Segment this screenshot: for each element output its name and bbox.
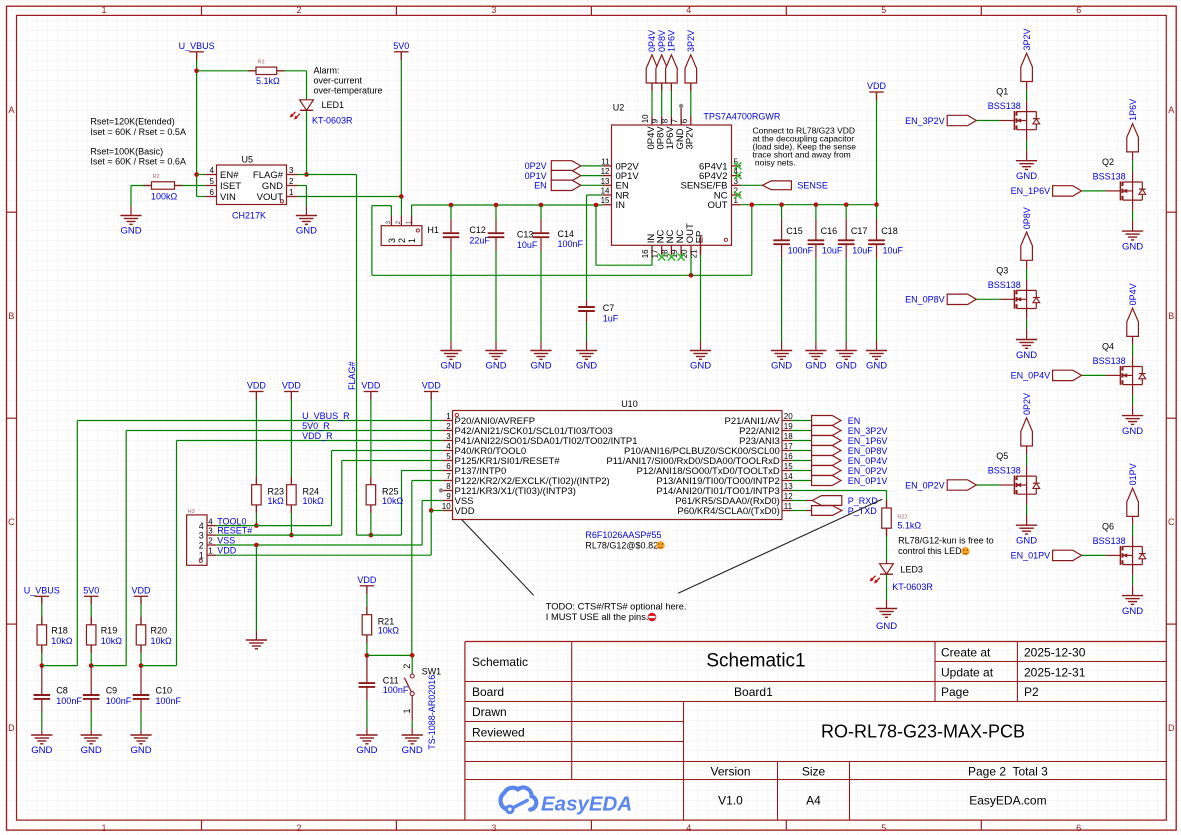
svg-text:0P2V: 0P2V [525, 161, 547, 171]
port EN from U10 [792, 416, 861, 426]
node C15 junction [779, 202, 784, 207]
svg-text:3: 3 [491, 5, 496, 15]
svg-text:EN_1P6V: EN_1P6V [848, 436, 888, 446]
transistor Q6 BSS138 [1011, 463, 1146, 617]
svg-text:EN_3P2V: EN_3P2V [848, 426, 888, 436]
wire 3P2V flag to pin [690, 83, 692, 116]
svg-text:control this LED: control this LED [898, 546, 962, 556]
svg-text:EP: EP [694, 231, 705, 244]
svg-text:1: 1 [101, 823, 106, 833]
svg-text:GND: GND [866, 361, 887, 372]
svg-text:16: 16 [784, 452, 793, 461]
capacitor C12 22uF [443, 205, 491, 351]
svg-text:LED1: LED1 [322, 100, 345, 110]
ground under C15 [771, 351, 792, 372]
svg-text:7: 7 [670, 118, 679, 123]
ground under LED3 [876, 609, 897, 633]
svg-text:H1: H1 [427, 225, 439, 235]
power port VDD above R21 [357, 575, 377, 586]
svg-text:22uF: 22uF [469, 235, 490, 245]
svg-text:GND: GND [130, 745, 151, 756]
resistor R23 1kΩ [252, 485, 284, 506]
svg-text:14: 14 [601, 187, 610, 196]
wire NR to C7 [587, 195, 603, 300]
title block table [465, 642, 1166, 821]
power flag 1P6V above U2 [666, 30, 678, 83]
svg-text:R23: R23 [268, 486, 285, 496]
ground under VSS [246, 640, 267, 649]
node C18 junction [874, 202, 879, 207]
svg-text:RL78/G12@$0.82: RL78/G12@$0.82 [585, 540, 658, 550]
node R24 junction [289, 533, 294, 538]
svg-text:IN: IN [616, 200, 626, 211]
svg-text:VSS: VSS [217, 535, 235, 545]
ground under C14 [530, 351, 551, 372]
ground under C17 [836, 351, 857, 372]
wire VIN stub [197, 196, 206, 198]
svg-text:100nF: 100nF [106, 696, 132, 706]
svg-text:R2: R2 [153, 174, 160, 180]
no-connect dot U2 pin7 GND [679, 104, 683, 108]
svg-text:GND: GND [262, 181, 283, 192]
power port VDD above U10 [422, 381, 442, 392]
node R21 junction [365, 653, 370, 658]
svg-text:P60/KR4/SCLA0/(TxD0): P60/KR4/SCLA0/(TxD0) [677, 506, 779, 517]
resistor R20 10k [136, 625, 172, 646]
node R19 junction [89, 663, 94, 668]
svg-text:VDD: VDD [867, 81, 887, 91]
ground under C18 [866, 351, 887, 372]
svg-text:Schematic1: Schematic1 [706, 650, 805, 671]
transistor Q1 BSS138 [905, 28, 1040, 182]
port P_RXD [792, 496, 879, 506]
svg-text:P_RXD: P_RXD [848, 496, 879, 506]
wire FLAG# to R25 [357, 534, 402, 536]
wire EN# stub [197, 174, 206, 176]
wire 0P4V flag to pin [651, 83, 653, 116]
svg-text:Board1: Board1 [734, 685, 773, 699]
svg-text:V1.0: V1.0 [718, 794, 743, 808]
svg-text:Page: Page [941, 685, 969, 699]
LED LED3 KT-0603R [870, 564, 934, 592]
svg-text:Page 2 Total 3: Page 2 Total 3 [968, 764, 1048, 778]
wire FLAG# horizontal [298, 174, 357, 176]
svg-text:12: 12 [784, 492, 793, 501]
wire R22 to LED3 [886, 528, 888, 564]
node 5V0 VOUT junction [399, 194, 404, 199]
wire R3 to LED1 [277, 71, 307, 100]
power port VDD bottom [131, 586, 151, 597]
wire VDD to pin10 [430, 392, 432, 511]
svg-text:5V0_R: 5V0_R [302, 421, 330, 431]
wire 5V0 to R19 [90, 596, 92, 625]
svg-text:GND: GND [1016, 536, 1037, 547]
wire net VDD to H3 [208, 546, 431, 556]
svg-text:1uF: 1uF [603, 313, 619, 323]
svg-text:5V0: 5V0 [83, 586, 99, 596]
svg-text:TPS7A4700RGWR: TPS7A4700RGWR [703, 112, 781, 122]
svg-text:VDD: VDD [217, 546, 237, 556]
svg-text:VDD: VDD [455, 506, 475, 517]
svg-text:noisy nets.: noisy nets. [753, 158, 796, 168]
node R20 junction [139, 663, 144, 668]
svg-text:U10: U10 [621, 399, 638, 409]
resistor R19 10k [86, 625, 122, 646]
svg-text:C13: C13 [517, 230, 534, 240]
svg-text:KT-0603R: KT-0603R [892, 582, 933, 592]
svg-text:VDD_R: VDD_R [302, 431, 333, 441]
svg-text:0P1V: 0P1V [525, 171, 547, 181]
svg-text:EasyEDA: EasyEDA [541, 793, 632, 816]
ground under C13 [485, 351, 506, 372]
pin stubs overlay [42, 52, 887, 653]
wire H1 pin2 to 5V0 [400, 197, 402, 216]
power port U_VBUS bottom [24, 586, 60, 597]
note TODO text [546, 601, 687, 622]
svg-text:TODO: CTS#/RTS# optional here.: TODO: CTS#/RTS# optional here. [546, 601, 687, 611]
svg-text:EN_0P4V: EN_0P4V [848, 456, 888, 466]
svg-text:FLAG#: FLAG# [253, 170, 284, 181]
svg-text:GND: GND [440, 361, 461, 372]
wire net RESET# [208, 526, 341, 536]
wire VDD to R25 [370, 392, 372, 485]
wire net TOOL0 [208, 517, 331, 527]
svg-text:2: 2 [296, 823, 301, 833]
svg-text:R24: R24 [303, 486, 320, 496]
title block text [472, 645, 1086, 807]
svg-text:Q4: Q4 [1102, 341, 1114, 351]
wire net FLAG# vertical [347, 175, 357, 536]
svg-text:0P2V: 0P2V [1022, 393, 1032, 415]
svg-text:5: 5 [881, 5, 886, 15]
node IN pin16 junction [594, 203, 599, 208]
power port VDD above R24 [282, 381, 302, 392]
wire pin7 to SW1 [412, 481, 443, 656]
svg-text:10: 10 [641, 114, 650, 123]
svg-text:C: C [8, 517, 15, 527]
svg-text:1: 1 [208, 547, 213, 556]
wire VDD to R21 [366, 586, 368, 615]
wire pin5 RESET# [342, 461, 443, 536]
svg-text:R25: R25 [382, 486, 399, 496]
svg-text:10uF: 10uF [883, 245, 904, 255]
wire R24 down [290, 505, 292, 535]
capacitor C10 100nF [133, 666, 182, 735]
svg-text:13: 13 [784, 482, 793, 491]
svg-text:Reviewed: Reviewed [472, 725, 525, 739]
capacitor C8 100nF [34, 666, 83, 735]
port 0P2V into U2 [525, 161, 581, 171]
svg-text:EasyEDA.com: EasyEDA.com [969, 794, 1046, 808]
svg-text:EN_0P4V: EN_0P4V [1011, 371, 1051, 381]
wire VDD to R24 [290, 392, 292, 485]
svg-text:BSS138: BSS138 [1093, 172, 1126, 182]
svg-text:EN#: EN# [220, 170, 239, 181]
wire pin20 OUT down [690, 255, 692, 275]
power flag 3P2V above U2 [685, 30, 697, 83]
svg-text:100nF: 100nF [156, 696, 182, 706]
wire VDD to OUT rail [876, 92, 878, 205]
wire H1 pin3 to OUT rail [372, 206, 752, 276]
svg-text:Size: Size [802, 764, 826, 778]
resistor R24 10kΩ [287, 485, 324, 506]
resistor R2 100k [151, 174, 178, 201]
svg-text:over-current: over-current [314, 76, 363, 86]
node SW1 junction [410, 653, 415, 658]
port EN_0P8V from U10 [792, 446, 888, 456]
power port 5V0 [393, 41, 409, 52]
wire R21 to SW1 [367, 654, 412, 656]
emoji hug face 2 [961, 547, 969, 555]
svg-text:1: 1 [402, 708, 412, 713]
svg-text:I MUST USE all the pins.: I MUST USE all the pins. [546, 612, 649, 622]
svg-text:EN_1P6V: EN_1P6V [1011, 186, 1051, 196]
svg-text:4: 4 [210, 166, 215, 175]
node FLAG# junction at LED [304, 172, 309, 177]
svg-text:100nF: 100nF [56, 696, 82, 706]
svg-text:Create at: Create at [941, 645, 991, 659]
svg-text:0P4V: 0P4V [1128, 283, 1138, 305]
svg-text:C11: C11 [383, 675, 399, 685]
svg-text:GND: GND [576, 361, 597, 372]
ground under SW1 [402, 735, 423, 756]
svg-text:Q1: Q1 [996, 87, 1008, 97]
wire H1 pin1 to IN rail [412, 205, 603, 216]
wire VDD to R23 [255, 392, 257, 485]
svg-text:100kΩ: 100kΩ [151, 191, 178, 201]
svg-text:GND: GND [296, 226, 317, 237]
svg-text:9: 9 [651, 118, 660, 123]
wire R20 down [140, 645, 142, 666]
svg-text:U_VBUS_R: U_VBUS_R [302, 411, 350, 421]
svg-text:8: 8 [446, 482, 451, 491]
wire VDD to R20 [140, 596, 142, 625]
wire 0P8V flag to pin [661, 83, 663, 116]
svg-text:GND: GND [771, 361, 792, 372]
svg-text:EN_0P2V: EN_0P2V [848, 466, 888, 476]
svg-text:LED3: LED3 [900, 565, 923, 575]
resistor R18 10k [37, 625, 73, 646]
svg-text:GND: GND [356, 745, 377, 756]
capacitor C15 100nF [773, 205, 813, 351]
svg-text:BSS138: BSS138 [988, 466, 1021, 476]
svg-text:5.1kΩ: 5.1kΩ [897, 520, 921, 530]
svg-text:3: 3 [208, 527, 213, 536]
node C16 junction [814, 202, 819, 207]
wire R2 to GND [131, 186, 152, 216]
svg-text:4: 4 [686, 823, 691, 833]
node C17 junction [844, 202, 849, 207]
svg-text:1P6V: 1P6V [667, 30, 677, 52]
svg-text:H3: H3 [188, 509, 195, 515]
svg-text:SENSE: SENSE [797, 181, 828, 191]
svg-text:10uF: 10uF [852, 245, 873, 255]
svg-text:VDD: VDD [357, 575, 377, 585]
wire 5V0 vertical [400, 52, 402, 197]
svg-text:RL78/G12-kun is free to: RL78/G12-kun is free to [898, 536, 994, 546]
node C12 junction [449, 203, 454, 208]
svg-text:10kΩ: 10kΩ [382, 496, 404, 506]
node R18 junction [40, 663, 45, 668]
svg-text:C9: C9 [106, 686, 118, 696]
svg-text:2: 2 [289, 177, 294, 186]
transistor Q4 BSS138 [1011, 283, 1146, 437]
capacitor C18 10uF [868, 205, 903, 351]
svg-text:15: 15 [784, 462, 793, 471]
power port VDD above R25 [361, 381, 381, 392]
svg-text:9: 9 [446, 492, 451, 501]
svg-text:GND: GND [31, 745, 52, 756]
wire R25 down [370, 505, 372, 535]
port SENSE [741, 181, 828, 191]
power flag 0P4V above U2 [646, 30, 658, 83]
wire U5 GND pin to ground [298, 186, 307, 216]
svg-text:1: 1 [407, 238, 417, 243]
wire R19 down [90, 645, 92, 666]
resistor R21 10k [362, 615, 399, 636]
wire IN to pin16 [596, 205, 652, 265]
svg-text:RESET#: RESET# [217, 526, 252, 536]
no-connect dot U10 pin8 [439, 488, 443, 492]
power port VDD above R23 [247, 381, 267, 392]
U5 pins [205, 166, 297, 203]
svg-text:3P2V: 3P2V [686, 30, 696, 52]
svg-text:6: 6 [210, 188, 215, 197]
svg-text:5.1kΩ: 5.1kΩ [256, 76, 280, 86]
node C13 junction [494, 203, 499, 208]
svg-text:Q5: Q5 [996, 451, 1008, 461]
note connect-to text [753, 125, 857, 167]
svg-text:GND: GND [402, 745, 423, 756]
svg-text:4: 4 [199, 521, 204, 531]
op-amp U10 R6F1026AASP body [453, 399, 783, 550]
wire OUT riser [751, 205, 753, 276]
wire EN to pin [581, 184, 602, 186]
svg-text:R3: R3 [258, 60, 265, 66]
svg-text:C12: C12 [469, 225, 486, 235]
wire 1P6V flag to pin [670, 83, 672, 116]
wire VSS to ground [255, 545, 257, 640]
svg-text:BSS138: BSS138 [988, 101, 1021, 111]
U2 top pins [641, 107, 696, 150]
svg-text:100nF: 100nF [558, 239, 584, 249]
node R25 junction [369, 533, 374, 538]
svg-text:B: B [1168, 311, 1174, 321]
svg-text:GND: GND [690, 361, 711, 372]
svg-text:2: 2 [446, 422, 451, 431]
svg-text:GND: GND [1016, 171, 1037, 182]
svg-text:10: 10 [442, 502, 451, 511]
svg-text:6: 6 [1076, 823, 1081, 833]
svg-text:8: 8 [660, 118, 669, 123]
svg-text:GND: GND [1122, 606, 1143, 617]
wire pin4 TOOL0 [332, 451, 443, 526]
pointer line right [678, 499, 882, 593]
wire R18 down [41, 645, 43, 666]
svg-text:3P2V: 3P2V [685, 126, 696, 150]
svg-text:14: 14 [784, 472, 793, 481]
svg-text:EN: EN [848, 416, 861, 426]
op-amp U5 CH217K body [217, 155, 287, 221]
svg-text:C: C [1168, 517, 1175, 527]
svg-text:VDD: VDD [131, 586, 151, 596]
transistor Q5 BSS138 [905, 393, 1040, 547]
svg-text:2: 2 [199, 541, 204, 551]
svg-text:Q6: Q6 [1102, 521, 1114, 531]
svg-text:0P8V: 0P8V [1022, 207, 1032, 229]
svg-text:A: A [1168, 105, 1174, 115]
capacitor C13 10uF [488, 205, 538, 351]
svg-text:3: 3 [446, 432, 451, 441]
wire R20 to riser [141, 441, 177, 666]
wire R2 to ISET [175, 185, 206, 187]
svg-text:EN_3P2V: EN_3P2V [905, 116, 945, 126]
svg-text:Alarm:: Alarm: [314, 66, 340, 76]
port 0P1V into U2 [525, 170, 581, 180]
svg-text:R18: R18 [51, 625, 68, 635]
svg-text:Iset = 60K / Rset = 0.6A: Iset = 60K / Rset = 0.6A [90, 157, 186, 167]
svg-text:3: 3 [199, 531, 204, 541]
connector H1 [381, 216, 439, 246]
svg-text:1kΩ: 1kΩ [268, 496, 285, 506]
svg-text:FLAG#: FLAG# [347, 361, 357, 390]
U2 no-connect marks right [734, 162, 741, 198]
note alarm text [314, 66, 383, 96]
ground under C11 [356, 735, 377, 756]
svg-text:EN_0P1V: EN_0P1V [848, 476, 888, 486]
svg-text:BSS138: BSS138 [1093, 536, 1126, 546]
svg-text:Version: Version [710, 764, 750, 778]
transistor Q2 BSS138 [1011, 99, 1146, 253]
svg-text:1: 1 [101, 5, 106, 15]
svg-text:3: 3 [491, 823, 496, 833]
svg-text:GND: GND [81, 745, 102, 756]
op-amp U2 TPS7A4700RGWR body [612, 103, 781, 246]
svg-text:EN_0P2V: EN_0P2V [905, 480, 945, 490]
svg-text:2025-12-30: 2025-12-30 [1024, 645, 1086, 659]
emoji no-entry [648, 613, 657, 622]
svg-text:10kΩ: 10kΩ [378, 625, 400, 635]
wire R23 down [255, 505, 257, 526]
node U_VBUS junction [194, 69, 199, 74]
svg-text:2: 2 [402, 664, 412, 669]
wire VOUT rail 5V0 [298, 196, 402, 198]
svg-text:1: 1 [446, 412, 451, 421]
svg-text:B: B [8, 311, 14, 321]
svg-text:5V0: 5V0 [393, 41, 409, 51]
wire U_VBUS to R18 [41, 596, 43, 625]
svg-text:11: 11 [601, 157, 610, 166]
svg-text:4: 4 [446, 442, 451, 451]
svg-text:R6F1026AASP#55: R6F1026AASP#55 [585, 530, 661, 540]
svg-text:P2: P2 [1024, 685, 1039, 699]
wire pin9 VSS [422, 501, 443, 546]
node C14 junction [539, 203, 544, 208]
svg-text:BSS138: BSS138 [988, 280, 1021, 290]
svg-text:01PV: 01PV [1128, 463, 1138, 485]
svg-text:EN_0P8V: EN_0P8V [905, 295, 945, 305]
svg-text:ISET: ISET [220, 181, 241, 192]
svg-text:Rset=120K(Etended): Rset=120K(Etended) [90, 117, 174, 127]
port EN_0P2V from U10 [792, 466, 888, 476]
U2 no-connect marks bottom [658, 253, 685, 260]
svg-text:GND: GND [120, 226, 141, 237]
wire net 5V0_R [126, 421, 443, 431]
svg-text:D: D [1168, 723, 1175, 733]
wire net VSS [208, 535, 422, 545]
svg-text:C10: C10 [156, 686, 173, 696]
svg-text:13: 13 [601, 177, 610, 186]
